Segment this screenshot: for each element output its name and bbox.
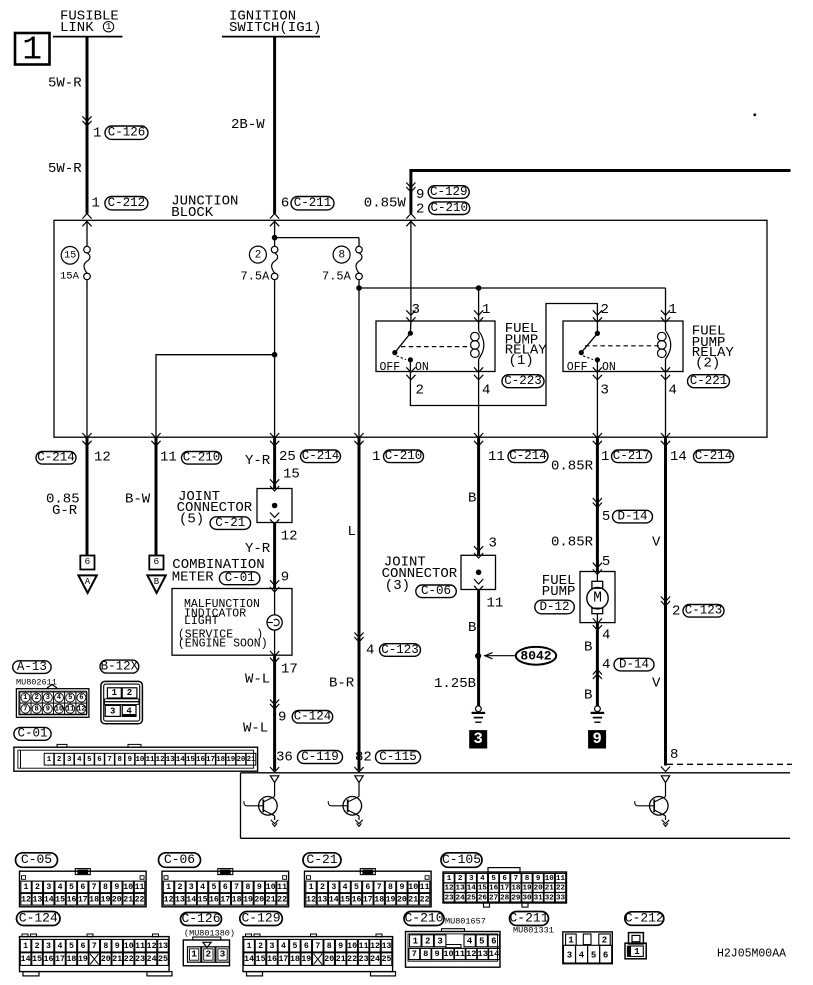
svg-text:13: 13 <box>175 895 185 904</box>
svg-text:W-L: W-L <box>243 720 268 736</box>
svg-text:14: 14 <box>329 895 339 904</box>
svg-text:18: 18 <box>374 895 384 904</box>
svg-text:1: 1 <box>634 947 640 957</box>
svg-text:13: 13 <box>478 949 488 959</box>
wire 5W-R from fusible link <box>86 37 89 214</box>
stray mark <box>753 113 756 116</box>
svg-text:11: 11 <box>556 875 566 883</box>
node: FUSIBLE LINK (1) <box>53 8 123 36</box>
svg-text:12: 12 <box>444 885 454 893</box>
svg-text:16: 16 <box>352 895 362 904</box>
svg-text:15: 15 <box>32 955 42 964</box>
wire V from relay 2 pin 4 to ECM pin 8 <box>652 437 724 771</box>
relay U1 coil <box>471 322 484 372</box>
svg-text:9: 9 <box>399 883 404 892</box>
svg-text:12: 12 <box>370 942 380 951</box>
svg-text:13: 13 <box>158 942 168 951</box>
svg-text:9: 9 <box>536 875 541 883</box>
svg-text:C-123: C-123 <box>685 604 723 618</box>
wire L / B-R to ECM pin 82 <box>329 437 421 772</box>
svg-text:2: 2 <box>177 883 182 892</box>
svg-text:2: 2 <box>416 383 424 399</box>
svg-text:5W-R: 5W-R <box>48 75 82 91</box>
svg-text:20: 20 <box>324 955 334 964</box>
svg-text:6: 6 <box>153 556 159 567</box>
svg-text:7: 7 <box>315 942 320 951</box>
connector C-105 label <box>441 852 482 867</box>
svg-text:4: 4 <box>669 383 677 399</box>
svg-text:20: 20 <box>112 895 122 904</box>
svg-text:9: 9 <box>278 709 286 725</box>
svg-text:C-212: C-212 <box>625 910 664 925</box>
ground B terminal <box>147 556 165 594</box>
svg-text:11: 11 <box>487 596 504 612</box>
svg-text:10: 10 <box>266 883 276 892</box>
svg-text:A: A <box>85 577 91 587</box>
svg-text:5: 5 <box>211 883 216 892</box>
svg-text:17: 17 <box>278 955 288 964</box>
svg-text:B: B <box>468 620 476 636</box>
svg-text:9: 9 <box>257 883 262 892</box>
joint connector (3) C-06 <box>382 536 497 598</box>
svg-text:16: 16 <box>44 955 54 964</box>
svg-text:C-214: C-214 <box>37 451 75 465</box>
svg-text:2: 2 <box>34 694 38 702</box>
fuel pump label <box>535 573 576 614</box>
svg-text:25: 25 <box>467 894 477 902</box>
svg-text:10: 10 <box>124 942 134 951</box>
svg-text:C-21: C-21 <box>215 516 245 530</box>
svg-text:14: 14 <box>489 949 499 959</box>
fuse 2 (7.5A) <box>241 220 278 437</box>
svg-text:13: 13 <box>32 895 42 904</box>
svg-text:10: 10 <box>347 942 357 951</box>
svg-text:C-124: C-124 <box>294 710 332 724</box>
svg-text:2: 2 <box>425 936 430 946</box>
svg-text:23: 23 <box>444 894 454 902</box>
svg-text:1: 1 <box>93 125 101 141</box>
svg-text:82: 82 <box>355 749 372 765</box>
svg-text:10: 10 <box>123 883 133 892</box>
svg-text:3: 3 <box>46 883 51 892</box>
svg-text:12: 12 <box>306 895 316 904</box>
exit pin 12 C-214 <box>36 450 111 466</box>
connector C-210 pinout <box>406 929 501 968</box>
svg-text:3: 3 <box>46 942 51 951</box>
combination meter malfunction indicator box <box>172 580 292 655</box>
svg-text:15: 15 <box>186 756 195 764</box>
svg-text:METER: METER <box>172 569 215 585</box>
svg-text:13: 13 <box>166 756 175 764</box>
relay U2 OFF/ON labels <box>567 361 616 374</box>
relay U1 fuel pump relay (1) box <box>376 321 495 372</box>
svg-text:8: 8 <box>103 942 108 951</box>
svg-text:4: 4 <box>579 950 585 960</box>
svg-text:B: B <box>584 687 592 703</box>
relay bottom exits <box>474 367 670 437</box>
relay U2 name <box>688 323 735 388</box>
svg-text:12: 12 <box>21 895 31 904</box>
connector C-06 pinout <box>162 869 289 907</box>
wire Y-R to combination meter <box>273 437 276 488</box>
label 2B-W <box>231 117 265 133</box>
ground A terminal <box>78 556 96 594</box>
svg-text:3: 3 <box>331 883 336 892</box>
svg-text:11: 11 <box>135 883 145 892</box>
svg-text:15: 15 <box>283 466 300 482</box>
transistor Q2 <box>328 776 363 827</box>
splice S042 callout <box>484 647 556 665</box>
connector C-212 pin 1 into junction block <box>82 195 147 226</box>
svg-text:27: 27 <box>489 894 499 902</box>
svg-text:5: 5 <box>292 942 297 951</box>
svg-text:2: 2 <box>205 949 211 960</box>
svg-text:5: 5 <box>68 694 72 702</box>
svg-text:4: 4 <box>281 942 286 951</box>
exit pin 1 C-217 <box>551 449 652 475</box>
junction block box <box>54 220 767 437</box>
svg-text:MU801657: MU801657 <box>445 917 486 927</box>
connector B-12X label <box>100 659 139 673</box>
svg-text:C-126: C-126 <box>181 911 220 926</box>
svg-text:8: 8 <box>423 949 428 959</box>
svg-text:16: 16 <box>489 885 499 893</box>
svg-text:23: 23 <box>359 955 369 964</box>
svg-text:1: 1 <box>372 449 380 465</box>
joint connector (5) C-21 <box>177 479 292 530</box>
svg-text:10: 10 <box>135 756 144 764</box>
svg-text:10: 10 <box>55 705 63 713</box>
svg-text:31: 31 <box>534 894 544 902</box>
svg-text:7: 7 <box>92 883 97 892</box>
svg-text:B-R: B-R <box>329 675 355 691</box>
svg-text:19: 19 <box>226 756 235 764</box>
svg-text:15A: 15A <box>60 271 80 283</box>
svg-text:2: 2 <box>320 883 325 892</box>
svg-text:8: 8 <box>34 705 38 713</box>
svg-text:8: 8 <box>103 883 108 892</box>
svg-text:8: 8 <box>327 942 332 951</box>
svg-text:14: 14 <box>244 955 254 964</box>
svg-text:26: 26 <box>478 894 488 902</box>
svg-text:10: 10 <box>443 949 453 959</box>
svg-text:11: 11 <box>135 942 145 951</box>
svg-text:8042: 8042 <box>520 649 551 664</box>
svg-text:9: 9 <box>338 942 343 951</box>
svg-text:(5): (5) <box>179 511 204 527</box>
svg-text:17: 17 <box>363 895 373 904</box>
svg-text:11: 11 <box>146 756 155 764</box>
earth ground (splice side) <box>472 706 486 722</box>
svg-text:17: 17 <box>220 895 230 904</box>
svg-text:22: 22 <box>135 895 145 904</box>
svg-text:11: 11 <box>488 449 505 465</box>
svg-text:1: 1 <box>309 883 314 892</box>
svg-text:21: 21 <box>247 756 256 764</box>
fuse 15 (15A) <box>60 220 90 437</box>
svg-text:LINK: LINK <box>60 20 94 36</box>
svg-text:7: 7 <box>234 883 239 892</box>
svg-text:C-210: C-210 <box>385 449 423 463</box>
label 5W-R lower <box>48 161 82 177</box>
connector C-211 pin 6 into junction block <box>270 195 334 226</box>
svg-text:0.85R: 0.85R <box>551 458 594 474</box>
svg-text:25: 25 <box>279 449 296 465</box>
connector C-21 pinout <box>305 869 432 907</box>
svg-text:C-123: C-123 <box>381 643 419 657</box>
svg-text:12: 12 <box>77 705 85 713</box>
svg-text:2: 2 <box>35 942 40 951</box>
wire: B-W tap from fuse 2 to pin 11 <box>156 355 275 438</box>
svg-text:(ENGINE SOON): (ENGINE SOON) <box>178 637 268 650</box>
svg-text:21: 21 <box>408 895 418 904</box>
svg-text:ON: ON <box>602 361 616 374</box>
connector C-212 pinout <box>625 933 646 959</box>
svg-text:2: 2 <box>602 936 607 946</box>
svg-text:12: 12 <box>466 949 476 959</box>
connector C-124 label <box>17 910 61 925</box>
ECM box <box>241 773 791 839</box>
svg-text:10: 10 <box>408 883 418 892</box>
connector C-21 label <box>303 852 341 867</box>
svg-text:20: 20 <box>254 895 264 904</box>
svg-text:C-119: C-119 <box>301 750 339 764</box>
svg-text:4: 4 <box>602 657 610 673</box>
svg-text:24: 24 <box>147 955 157 964</box>
svg-text:6: 6 <box>502 875 507 883</box>
label 0.85W <box>364 195 407 211</box>
ground tag 3 <box>470 730 487 748</box>
svg-text:4: 4 <box>200 883 205 892</box>
svg-text:8: 8 <box>525 875 530 883</box>
transistor Q3 <box>635 776 670 827</box>
svg-text:4: 4 <box>58 942 63 951</box>
svg-text:4: 4 <box>366 642 374 658</box>
svg-text:13: 13 <box>317 895 327 904</box>
svg-text:C-214: C-214 <box>509 449 547 463</box>
svg-text:15: 15 <box>198 895 208 904</box>
wire B from relay 1 pin 4 <box>468 437 479 555</box>
fuse 8 (7.5A) <box>322 246 362 437</box>
combination meter label <box>172 557 265 585</box>
svg-text:C-21: C-21 <box>306 852 337 867</box>
wire Y-R pin12 to pin 9 <box>245 523 298 589</box>
wire B from pump to ground <box>584 623 654 706</box>
svg-text:6: 6 <box>304 942 309 951</box>
svg-text:C-214: C-214 <box>695 449 733 463</box>
svg-text:2B-W: 2B-W <box>231 117 265 133</box>
svg-text:19: 19 <box>78 955 88 964</box>
connector pass C-126 pin 1 <box>82 116 148 141</box>
svg-text:2: 2 <box>35 883 40 892</box>
connector C-05 label <box>16 852 58 867</box>
connector C-129 pinout <box>243 934 396 976</box>
svg-text:V: V <box>652 534 661 550</box>
malfunction indicator lamp <box>267 589 282 663</box>
svg-text:5: 5 <box>354 883 359 892</box>
svg-text:3: 3 <box>46 694 50 702</box>
svg-text:SWITCH(IG1): SWITCH(IG1) <box>229 20 321 36</box>
connector B-12X pinout <box>101 681 142 723</box>
relay U2 switch <box>579 321 659 372</box>
svg-text:C-126: C-126 <box>108 125 146 139</box>
svg-text:M: M <box>593 590 602 606</box>
svg-text:7: 7 <box>412 949 417 959</box>
svg-text:17: 17 <box>500 885 510 893</box>
svg-text:11: 11 <box>277 883 287 892</box>
transistor Q1 <box>244 776 279 827</box>
svg-text:C-221: C-221 <box>690 374 728 388</box>
wire B to ground with splice S042 <box>468 590 503 707</box>
svg-text:B-W: B-W <box>125 491 151 507</box>
page tag 1 <box>15 32 50 69</box>
svg-text:LIGHT: LIGHT <box>184 615 219 628</box>
connector C-124 pinout <box>20 934 173 976</box>
junction block label <box>171 193 238 221</box>
wire: relay1 pin2 to relay2 pin2 crossover <box>406 304 602 406</box>
svg-text:Y-R: Y-R <box>245 453 271 469</box>
svg-text:1: 1 <box>568 936 574 946</box>
svg-text:C-124: C-124 <box>19 910 58 925</box>
svg-text:36: 36 <box>276 749 293 765</box>
svg-text:14: 14 <box>186 895 196 904</box>
wire W-L to ECM pin 36 <box>243 655 343 772</box>
svg-text:32: 32 <box>545 894 555 902</box>
svg-text:G-R: G-R <box>52 503 78 519</box>
svg-text:15: 15 <box>340 895 350 904</box>
svg-text:BLOCK: BLOCK <box>171 205 214 221</box>
connector pass C-129 pin 9 / C-210 pin 2 <box>406 183 469 218</box>
svg-text:1: 1 <box>106 21 112 32</box>
svg-text:22: 22 <box>556 885 566 893</box>
wire: main feed bus line (top) <box>410 169 791 214</box>
svg-text:20: 20 <box>534 885 544 893</box>
svg-text:3: 3 <box>110 707 115 717</box>
svg-text:12: 12 <box>164 895 174 904</box>
exit pin 25 C-214 <box>245 449 341 483</box>
svg-text:7: 7 <box>92 942 97 951</box>
svg-text:2: 2 <box>255 249 262 261</box>
svg-text:9: 9 <box>128 756 132 764</box>
svg-text:C-01: C-01 <box>225 571 255 585</box>
svg-text:C-223: C-223 <box>504 374 542 388</box>
connector C-06 label <box>159 852 201 867</box>
svg-text:19: 19 <box>101 895 111 904</box>
svg-text:3: 3 <box>220 949 226 960</box>
svg-text:2: 2 <box>672 603 680 619</box>
svg-text:5: 5 <box>87 756 92 764</box>
wire: relay 1 pin 1 feed <box>474 288 483 322</box>
svg-text:H2J05M00AA: H2J05M00AA <box>717 948 786 961</box>
fuel pump motor M <box>587 572 608 631</box>
svg-text:11: 11 <box>420 883 430 892</box>
connector A-13 label <box>13 660 57 688</box>
svg-text:19: 19 <box>301 955 311 964</box>
svg-text:C-217: C-217 <box>613 449 651 463</box>
svg-text:14: 14 <box>21 955 31 964</box>
wire 0.85 G-R to ground A <box>46 437 87 555</box>
svg-text:20: 20 <box>101 955 111 964</box>
exit pin 11 C-210 <box>160 450 222 466</box>
svg-text:2: 2 <box>416 202 424 218</box>
svg-text:1: 1 <box>413 936 419 946</box>
svg-text:B: B <box>584 639 592 655</box>
svg-text:C-115: C-115 <box>379 750 417 764</box>
svg-text:29: 29 <box>511 894 521 902</box>
svg-text:11: 11 <box>455 949 465 959</box>
connector C-210 label <box>404 910 486 926</box>
svg-text:C-05: C-05 <box>21 852 52 867</box>
svg-text:21: 21 <box>112 955 122 964</box>
svg-text:5W-R: 5W-R <box>48 161 82 177</box>
svg-text:0.85W: 0.85W <box>364 195 407 211</box>
connector C-126 label <box>181 911 236 939</box>
svg-text:14: 14 <box>44 895 54 904</box>
svg-text:4: 4 <box>482 383 490 399</box>
svg-text:7: 7 <box>514 875 519 883</box>
svg-text:9: 9 <box>115 942 120 951</box>
svg-text:9: 9 <box>114 883 119 892</box>
relay U2 coil <box>658 322 671 372</box>
svg-text:L: L <box>348 524 356 540</box>
connector C-129 label <box>240 910 282 925</box>
svg-text:B-12X: B-12X <box>101 659 139 673</box>
svg-text:22: 22 <box>347 955 357 964</box>
svg-text:8: 8 <box>388 883 393 892</box>
svg-text:19: 19 <box>243 895 253 904</box>
connector A-13 pinout <box>16 685 89 718</box>
svg-text:21: 21 <box>123 895 133 904</box>
svg-text:W-L: W-L <box>245 672 270 688</box>
svg-text:OFF: OFF <box>380 361 401 374</box>
svg-text:C-06: C-06 <box>164 852 195 867</box>
svg-text:22: 22 <box>124 955 134 964</box>
svg-text:3: 3 <box>601 383 609 399</box>
svg-text:15: 15 <box>256 955 266 964</box>
svg-text:C-06: C-06 <box>421 584 451 598</box>
svg-text:5: 5 <box>602 554 610 570</box>
svg-text:5: 5 <box>491 875 496 883</box>
connector C-105 pinout <box>443 868 567 908</box>
svg-text:18: 18 <box>89 895 99 904</box>
svg-text:15: 15 <box>64 250 76 261</box>
exit pin 1 C-210 <box>372 449 424 465</box>
svg-text:C-212: C-212 <box>108 196 146 210</box>
svg-text:18: 18 <box>232 895 242 904</box>
svg-text:1: 1 <box>669 302 677 318</box>
connector C-05 pinout <box>20 869 147 907</box>
svg-text:13: 13 <box>382 942 392 951</box>
svg-text:16: 16 <box>267 955 277 964</box>
svg-text:2: 2 <box>258 942 263 951</box>
svg-text:C-211: C-211 <box>509 910 548 925</box>
svg-text:C-129: C-129 <box>430 185 468 199</box>
wire 2B-W from ignition switch <box>273 37 276 214</box>
svg-text:1: 1 <box>22 32 42 69</box>
wire B-W to ground B <box>125 437 156 555</box>
svg-text:30: 30 <box>522 894 532 902</box>
svg-text:6: 6 <box>365 883 370 892</box>
svg-text:24: 24 <box>456 894 466 902</box>
svg-text:5: 5 <box>591 950 596 960</box>
svg-text:3: 3 <box>67 756 72 764</box>
svg-text:22: 22 <box>420 895 430 904</box>
svg-text:12: 12 <box>94 450 111 466</box>
svg-text:11: 11 <box>160 450 177 466</box>
svg-text:22: 22 <box>277 895 287 904</box>
svg-text:23: 23 <box>135 955 145 964</box>
svg-text:C-129: C-129 <box>241 910 280 925</box>
